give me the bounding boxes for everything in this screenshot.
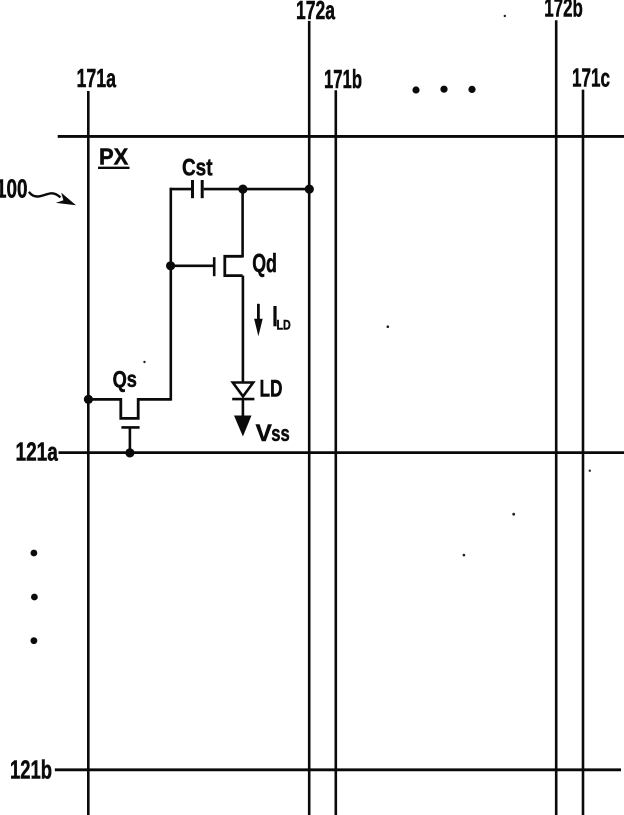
- svg-text:V: V: [256, 420, 272, 447]
- power line 172a (vertical wire): [308, 21, 311, 815]
- wire: Qd gate lead: [171, 264, 213, 267]
- scan specks: [504, 15, 506, 17]
- wire: Cst right lead to 172a: [204, 188, 310, 191]
- svg-text:Qs: Qs: [113, 366, 137, 392]
- svg-text:172a: 172a: [296, 0, 335, 25]
- svg-text:Qd: Qd: [252, 248, 277, 278]
- svg-text:PX: PX: [99, 143, 128, 169]
- transistor Qs gate bar: [121, 426, 139, 429]
- svg-text:171b: 171b: [324, 64, 362, 94]
- Vss terminal arrow: [234, 416, 252, 437]
- leader squiggly arrow for 100: [29, 192, 61, 198]
- power line 172b (vertical wire): [555, 20, 558, 815]
- ellipsis dots (horizontal, between 171b and 172b): [412, 86, 419, 93]
- scan line 121b (horizontal wire): [55, 768, 621, 771]
- svg-text:121b: 121b: [10, 755, 52, 785]
- wire: Cst left lead: [170, 188, 191, 191]
- transistor Qs channel and leads: [88, 399, 170, 418]
- data line 171b (vertical wire): [334, 90, 337, 815]
- wire: Qs gate lead to 121a: [129, 427, 132, 453]
- wire: diode cathode down: [242, 399, 245, 418]
- transistor Qd gate bar: [213, 257, 216, 276]
- top scan line (horizontal wire): [58, 135, 624, 138]
- node: wire to 172a junction: [305, 185, 314, 194]
- transistor Qd channel: [225, 256, 243, 275]
- wire: storage node vertical (Cst to Qs source): [170, 188, 173, 401]
- svg-text:171c: 171c: [572, 63, 610, 93]
- svg-text:LD: LD: [277, 316, 291, 332]
- svg-text:ss: ss: [271, 421, 290, 446]
- diode LD (light emitting element): [233, 383, 253, 397]
- svg-text:172b: 172b: [544, 0, 583, 23]
- data line 171a (vertical wire): [87, 91, 90, 815]
- svg-text:LD: LD: [260, 375, 283, 402]
- scan line 121a (horizontal wire): [59, 451, 624, 454]
- node: Qs drain on 171a: [84, 395, 93, 404]
- svg-text:100: 100: [0, 173, 28, 203]
- wire: Qd source down to diode LD: [242, 276, 245, 383]
- node: Qs gate on 121a: [125, 448, 134, 457]
- node: Qd gate junction: [166, 261, 175, 270]
- label I_LD: [273, 306, 276, 326]
- node: Cst-Qd drain junction: [238, 185, 247, 194]
- current arrow I_LD: [257, 304, 260, 322]
- data line 171c (vertical wire): [582, 90, 585, 815]
- svg-text:Cst: Cst: [182, 155, 213, 182]
- capacitor Cst: [191, 180, 194, 198]
- wire: Qd drain (from Cst wire down to Qd): [241, 189, 244, 257]
- ellipsis dots (vertical, left side): [31, 550, 38, 557]
- svg-text:171a: 171a: [77, 63, 117, 93]
- svg-text:121a: 121a: [16, 437, 59, 467]
